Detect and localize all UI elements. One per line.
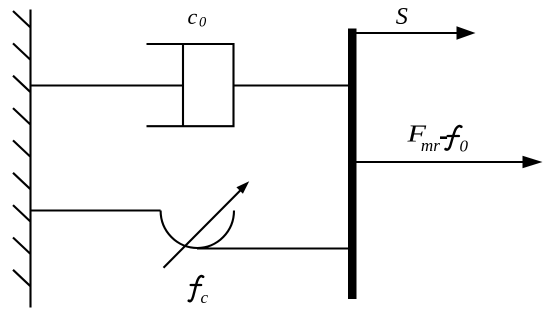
svg-text:mr: mr [421,136,441,155]
svg-text:c: c [201,288,209,307]
svg-text:0: 0 [199,14,207,30]
svg-text:0: 0 [460,137,469,156]
svg-text:S: S [396,3,408,30]
svg-text:c: c [188,4,198,29]
